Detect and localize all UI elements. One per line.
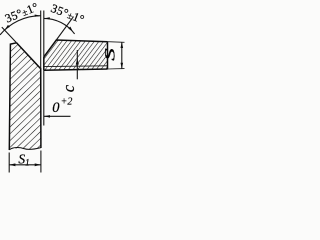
svg-text:0: 0 [52, 100, 60, 116]
svg-text:S: S [102, 47, 118, 60]
svg-text:+2: +2 [61, 97, 73, 108]
svg-text:c: c [59, 84, 78, 92]
